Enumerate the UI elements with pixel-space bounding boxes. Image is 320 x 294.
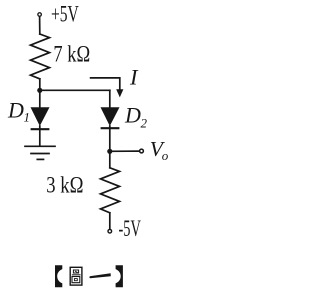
svg-text:+5V: +5V xyxy=(51,2,79,28)
svg-text:D: D xyxy=(7,98,24,123)
svg-text:3 kΩ: 3 kΩ xyxy=(46,172,83,198)
svg-text:o: o xyxy=(162,148,169,163)
svg-text:7 kΩ: 7 kΩ xyxy=(53,42,90,68)
svg-text:1: 1 xyxy=(24,109,31,124)
svg-text:2: 2 xyxy=(141,115,148,130)
svg-text:-5V: -5V xyxy=(119,216,141,242)
svg-text:D: D xyxy=(124,103,141,128)
